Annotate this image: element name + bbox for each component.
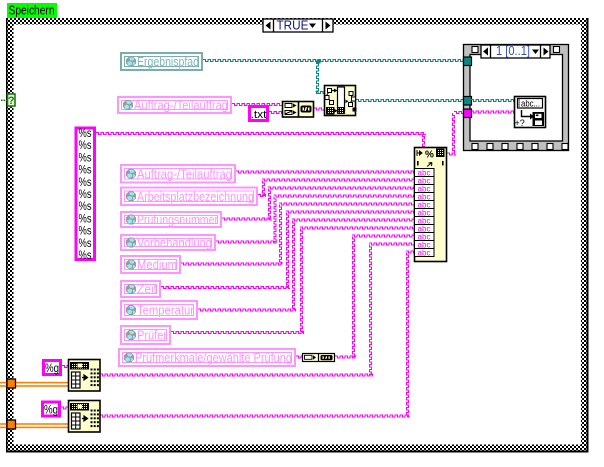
svg-text:TRUE: TRUE [277, 18, 309, 33]
wire Medium row riser [280, 205, 282, 265]
frame label "Speichern" [7, 3, 57, 19]
case selector label TRUE [263, 18, 333, 33]
wire converter riser [353, 237, 355, 358]
wire converter to Format input [352, 235, 414, 237]
svg-text:?: ? [8, 95, 15, 107]
svg-text:%s: %s [79, 165, 92, 177]
wire Concatenate to Build Path name input [314, 108, 324, 110]
svg-text:Medium: Medium [137, 258, 177, 272]
string constant .txt [250, 107, 268, 122]
wire Vorbehandlung row to Format input [274, 195, 415, 197]
wire .txt to Concatenate [269, 112, 282, 114]
wire Zeit row to Format input [286, 211, 414, 213]
wire Auftrag to Concatenate [232, 104, 282, 106]
function Concatenate Strings [283, 102, 314, 118]
svg-text:Ergebnispfad: Ergebnispfad [137, 55, 199, 69]
svg-text:Auftrag-/Teilauftrag: Auftrag-/Teilauftrag [134, 99, 228, 113]
path control Ergebnispfad [121, 53, 202, 70]
string control Zeit [121, 281, 160, 297]
string control Auftrag-/Teilauftrag (top) [118, 97, 231, 113]
svg-text:Auftrag-/Teilauftrag: Auftrag-/Teilauftrag [137, 167, 232, 181]
function Format Into String [415, 148, 447, 262]
wire Temperatur row [198, 309, 296, 311]
svg-text:%: % [425, 150, 434, 161]
case structure border bottom [8, 445, 587, 451]
function Array To Spreadsheet String 2 [69, 401, 101, 433]
svg-text:%s: %s [79, 177, 92, 189]
wire array-to-string 1 to Format input [369, 243, 414, 245]
svg-text:Prüfmerkmale/gewählte Prüfung: Prüfmerkmale/gewählte Prüfung [135, 351, 292, 365]
string control Temperatur [121, 301, 197, 319]
string control Auftrag-/Teilauftrag [121, 165, 235, 183]
wire Build Path output to sequence tunnel [356, 100, 466, 102]
subVI Write Characters To File [515, 97, 546, 129]
wire Arbeitsplatzbezeichnung row to Format input [262, 179, 414, 181]
svg-text:Prüfungsnummer: Prüfungsnummer [137, 213, 218, 227]
wire into Build Path base input [316, 92, 326, 94]
case structure border outer line right [587, 18, 589, 453]
array constant %s (11 elements) [76, 128, 95, 262]
sequence border squares [472, 47, 568, 150]
wire Pruefungsnummer row [222, 218, 272, 220]
wire Medium row to Format input [279, 203, 414, 205]
svg-text:%s: %s [79, 189, 92, 201]
case structure border outer line bottom [6, 451, 589, 453]
svg-text:%g: %g [44, 403, 58, 417]
case structure border top [8, 18, 587, 25]
case structure border left [8, 18, 14, 451]
wire branch down to Build Path [317, 61, 319, 94]
wire Pruefer row riser [301, 229, 303, 334]
tunnel numeric array 1 [7, 379, 16, 388]
svg-text:Speichern: Speichern [9, 3, 55, 18]
string control Pr&#252;fmerkmale/gew&#228;hlte Pr&#252;fung [119, 349, 295, 366]
svg-text:%s: %s [79, 128, 92, 140]
svg-text:%s: %s [79, 238, 92, 250]
string control Vorbehandlung [121, 235, 215, 250]
wire Arbeitsplatzbezeichnung row riser [263, 181, 265, 197]
svg-text:1 [0..1]: 1 [0..1] [496, 44, 530, 58]
string control Medium [121, 256, 180, 273]
svg-text:Vorbehandlung: Vorbehandlung [137, 236, 212, 250]
svg-text:%g: %g [45, 361, 59, 375]
wire Arbeitsplatzbezeichnung row [258, 195, 266, 197]
svg-text:Prüfer: Prüfer [137, 329, 167, 343]
wire Medium row [181, 263, 283, 265]
wire Temperatur row riser [293, 221, 295, 311]
svg-text:abc...: abc... [521, 99, 540, 109]
svg-text:Arbeitsplatzbezeichnung: Arbeitsplatzbezeichnung [137, 190, 254, 204]
string control Pr&#252;fungsnummer [121, 212, 221, 227]
function Build Path [325, 86, 357, 116]
wire Pruefer row [171, 332, 304, 334]
wire Pruefer row to Format input [300, 227, 414, 229]
svg-text:.txt: .txt [251, 109, 267, 121]
svg-text:%s: %s [79, 140, 92, 152]
svg-text:%s: %s [79, 250, 92, 262]
string control Pr&#252;fer [121, 326, 170, 344]
wire array-to-string 2 to Format input [406, 251, 414, 253]
wire %s array drop into Format node top [423, 134, 425, 147]
function string converter (row 9) [303, 354, 335, 362]
wire array-to-string 1 riser [370, 245, 372, 376]
wire %g 2 to array-to-string 2 [61, 407, 68, 409]
wire Pruefmerkmale to converter [296, 356, 302, 358]
wire Pruefungsnummer row riser [269, 189, 271, 220]
tunnel path (top) [464, 57, 472, 66]
wire Pruefungsnummer row to Format input [268, 187, 414, 189]
orange array wire 1 [0, 382, 68, 387]
tunnel path (middle) [464, 97, 472, 106]
wire path Ergebnispfad to sequence tunnel [203, 60, 466, 62]
wire junction dot [317, 60, 321, 64]
stacked sequence structure frame [464, 45, 569, 151]
case structure border outer line left [6, 18, 8, 453]
orange array wire 2 [0, 423, 68, 428]
svg-text:Zeit: Zeit [137, 283, 157, 297]
wire Format output rise [453, 113, 455, 155]
wire converter output [335, 356, 356, 358]
wire Format output to sequence tunnel [454, 112, 466, 114]
wire array-to-string 2 riser [407, 253, 409, 417]
unwired selector marker "?" [1, 94, 15, 107]
wire array-to-string 2 output [100, 415, 410, 417]
sequence selector label 1 [0..1] [481, 44, 550, 58]
svg-text:%s: %s [79, 226, 92, 238]
wire Zeit row riser [287, 213, 289, 289]
wire array-to-string 1 output [100, 374, 373, 376]
tunnel numeric array 2 [7, 420, 16, 429]
wire Auftrag row to Format input [236, 171, 414, 173]
wire path tunnel to Write VI [471, 100, 514, 102]
svg-text:%s: %s [79, 213, 92, 225]
function Array To Spreadsheet String 1 [69, 360, 101, 392]
tunnel string [464, 109, 472, 118]
svg-text:%s: %s [79, 152, 92, 164]
wire %g 1 to array-to-string 1 [62, 366, 68, 368]
string control Arbeitsplatzbezeichnung [121, 188, 257, 206]
wire Format output [447, 153, 456, 155]
wire string tunnel to Write VI [471, 111, 514, 113]
numeric format constant %g 1 [44, 361, 61, 376]
wire %s array to Format node [96, 133, 426, 135]
numeric format constant %g 2 [43, 402, 60, 417]
wire Temperatur row to Format input [292, 219, 414, 221]
wire Zeit row [161, 287, 290, 289]
svg-text:%s: %s [79, 201, 92, 213]
case structure border right [581, 18, 587, 451]
svg-text:abc: abc [418, 248, 431, 257]
wire Vorbehandlung row riser [274, 197, 276, 243]
svg-text:+?: +? [515, 118, 525, 128]
wire Vorbehandlung row [216, 241, 278, 243]
svg-text:Temperatur: Temperatur [137, 304, 194, 318]
